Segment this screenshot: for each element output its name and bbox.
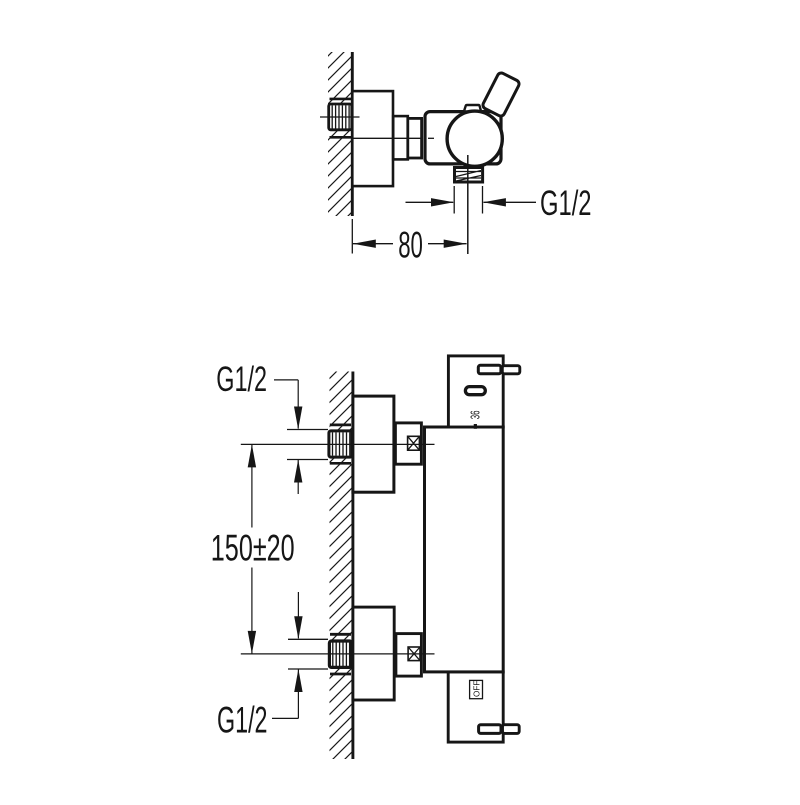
- upper up arrow tail: [297, 460, 299, 494]
- G1/2 dimension line left segment: [406, 201, 454, 203]
- lower thread hatch: [333, 642, 350, 666]
- upper fitting top extension line: [287, 429, 328, 431]
- upper up arrow: [294, 460, 302, 483]
- 150 dim lower arrow (points down): [248, 631, 256, 654]
- upper inlet centerline: [241, 443, 435, 445]
- upper mounting block: [353, 396, 394, 492]
- wall hatch (top figure): [328, 52, 352, 216]
- lower mounting block: [353, 607, 394, 700]
- top handle tab inner: [478, 365, 501, 374]
- body centerline (top figure) segment 2: [428, 137, 434, 139]
- svg-text:150±20: 150±20: [211, 527, 295, 569]
- connector ring: [408, 118, 422, 158]
- inlet centerline: [320, 116, 360, 118]
- threaded outlet: [455, 168, 483, 183]
- lower flange top line: [330, 633, 351, 636]
- outlet vertical centerline axis: [467, 155, 469, 254]
- 80 dimension right arrow (points right): [444, 240, 467, 248]
- svg-text:36: 36: [468, 410, 482, 419]
- lower inlet centerline: [241, 653, 435, 655]
- extension line right of outlet: [482, 186, 484, 214]
- upper threaded fitting: [329, 431, 352, 457]
- lower flange bottom line: [330, 673, 351, 676]
- lower threaded fitting: [329, 641, 351, 667]
- G1/2 right arrow (points left): [483, 198, 506, 206]
- upper X diagonals: [408, 436, 420, 450]
- top tab on body: [464, 105, 481, 110]
- lever handle: [482, 72, 521, 118]
- top handle tab outer: [502, 366, 520, 374]
- svg-text:G1/2: G1/2: [216, 360, 267, 399]
- outlet thread lines: [456, 171, 481, 182]
- lower up arrow tail: [297, 670, 299, 719]
- upper flange top line: [330, 424, 351, 427]
- lower X diagonals: [408, 647, 420, 661]
- upper thread hatch: [333, 432, 350, 456]
- 150 dim line upper segment: [251, 444, 253, 527]
- lower valve X-box: [408, 647, 420, 661]
- upper flange bottom line: [330, 462, 351, 465]
- threaded inlet fitting: [329, 104, 352, 130]
- 80 dimension left arrow (points left): [353, 240, 376, 248]
- lower fitting bottom extension line: [288, 668, 328, 670]
- 80 dimension line left segment: [353, 243, 393, 245]
- extension line left of outlet: [453, 186, 455, 214]
- inlet flange bottom line: [330, 136, 352, 139]
- 150 dim upper arrow (points up): [248, 444, 256, 467]
- G1/2 left arrow (points right): [431, 198, 454, 206]
- indicator tick on bar top: [474, 424, 477, 429]
- oval slot on top cap: [465, 387, 485, 395]
- upper connector: [395, 423, 421, 464]
- wall surface line (bottom figure): [351, 372, 354, 760]
- bottom cap of bar: [448, 672, 503, 742]
- upper leader horizontal: [274, 379, 298, 381]
- wall surface line (top figure): [351, 52, 354, 216]
- upper down arrow: [294, 407, 302, 430]
- wall extension line for 80 dim: [351, 219, 353, 254]
- OFF label box: [470, 680, 483, 698]
- body centerline (top figure) segment 1: [352, 137, 422, 139]
- svg-text:G1/2: G1/2: [540, 185, 592, 224]
- upper fitting bottom extension line: [287, 459, 328, 461]
- lower leader horizontal: [272, 717, 298, 719]
- control knob circle: [447, 111, 502, 166]
- wall hatch (bottom figure): [330, 372, 352, 760]
- valve body: [425, 112, 501, 164]
- lower down arrow: [294, 616, 302, 639]
- mixer bar body: [425, 427, 504, 672]
- upper valve X-box: [408, 436, 420, 450]
- inlet thread hatch: [332, 105, 349, 129]
- 80 dimension line right segment: [428, 243, 467, 245]
- wall plate: [352, 91, 393, 186]
- 150 dim line lower segment: [251, 568, 253, 654]
- bottom handle tab inner: [479, 725, 501, 734]
- upper leader vertical: [297, 380, 299, 429]
- bottom handle tab outer: [503, 725, 520, 734]
- lower dim upper tail: [297, 592, 299, 638]
- lower fitting top extension line: [288, 638, 328, 640]
- lower connector: [396, 634, 422, 677]
- svg-text:G1/2: G1/2: [217, 699, 268, 741]
- svg-text:OFF: OFF: [472, 681, 481, 697]
- G1/2 dimension line right segment: [484, 201, 537, 203]
- lower up arrow: [294, 669, 302, 692]
- svg-text:80: 80: [398, 225, 423, 266]
- inlet flange top line: [330, 98, 352, 101]
- connector neck: [393, 116, 408, 159]
- top cap of bar: [448, 356, 503, 427]
